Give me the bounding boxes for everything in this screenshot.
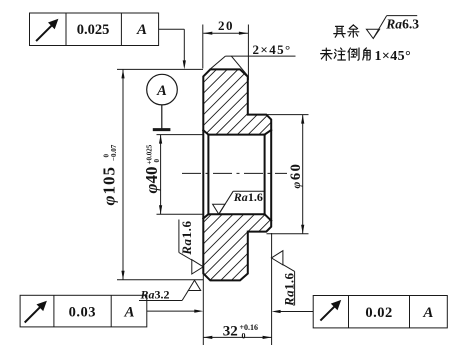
surface finish Ra1.6 on left face xyxy=(179,220,203,275)
svg-text:Ra6.3: Ra6.3 xyxy=(385,17,419,32)
svg-text:0: 0 xyxy=(153,159,161,163)
hatching upper xyxy=(0,60,472,300)
svg-text:1×45°: 1×45° xyxy=(375,49,412,64)
svg-text:Ra3.2: Ra3.2 xyxy=(140,288,170,302)
svg-text:Ra1.6: Ra1.6 xyxy=(179,220,194,255)
svg-text:A: A xyxy=(123,305,134,321)
svg-text:Ra1.6: Ra1.6 xyxy=(233,190,263,204)
dimension phi60 xyxy=(267,115,309,234)
dimension phi40 xyxy=(157,135,204,215)
bore chamfer bottom-left xyxy=(203,214,208,218)
svg-text:0.03: 0.03 xyxy=(69,305,96,321)
surface finish Ra1.6 on right face xyxy=(271,251,294,306)
svg-text:0: 0 xyxy=(242,332,246,341)
bore chamfer top-right xyxy=(265,130,272,135)
svg-text:20: 20 xyxy=(218,18,234,33)
svg-text:A: A xyxy=(136,22,147,38)
dimension 32 xyxy=(203,233,271,345)
bore chamfer edge line left xyxy=(207,135,209,215)
svg-text:A: A xyxy=(422,305,433,321)
svg-text:32: 32 xyxy=(223,324,238,340)
datum A symbol xyxy=(147,74,178,129)
outer profile upper xyxy=(203,69,271,280)
note text qi yu (rest/others) drawn as strokes xyxy=(334,25,359,37)
runout frame 0.03 A xyxy=(20,295,195,327)
note text wei zhu dao jiao (unnoted chamfers) drawn as strokes xyxy=(321,48,371,61)
surface finish Ra3.2 on bottom face xyxy=(139,280,201,300)
svg-text:A: A xyxy=(156,83,167,99)
svg-text:φ105: φ105 xyxy=(100,166,119,205)
bore chamfer top-left xyxy=(203,130,208,134)
bore chamfer bottom-right xyxy=(265,214,272,220)
runout frame 0.02 A xyxy=(280,296,447,328)
chamfer label 2x45 with leaders xyxy=(210,56,296,76)
bore top edge xyxy=(208,134,264,136)
svg-text:0.025: 0.025 xyxy=(77,22,110,38)
svg-text:+0.16: +0.16 xyxy=(240,323,259,332)
surface finish Ra1.6 inside bore xyxy=(213,191,265,214)
centerline (axis) xyxy=(182,172,287,174)
general roughness note: qiyu + Ra6.3 symbol xyxy=(366,16,417,39)
hatching lower xyxy=(0,60,472,300)
svg-text:0.02: 0.02 xyxy=(365,305,392,321)
dimension phi105 xyxy=(117,69,203,279)
bore bottom edge xyxy=(208,213,264,215)
svg-text:φ60: φ60 xyxy=(288,162,304,188)
svg-text:−0.07: −0.07 xyxy=(110,144,118,161)
bore chamfer edge line right xyxy=(264,135,266,215)
circular runout symbol arrow xyxy=(36,23,54,41)
part outline (section through axis) xyxy=(203,69,271,280)
svg-text:φ40: φ40 xyxy=(142,167,161,194)
dimension 20 xyxy=(203,25,249,81)
svg-text:Ra1.6: Ra1.6 xyxy=(282,272,297,307)
runout frame 0.025 A xyxy=(30,13,185,61)
svg-text:2×45°: 2×45° xyxy=(253,42,292,57)
